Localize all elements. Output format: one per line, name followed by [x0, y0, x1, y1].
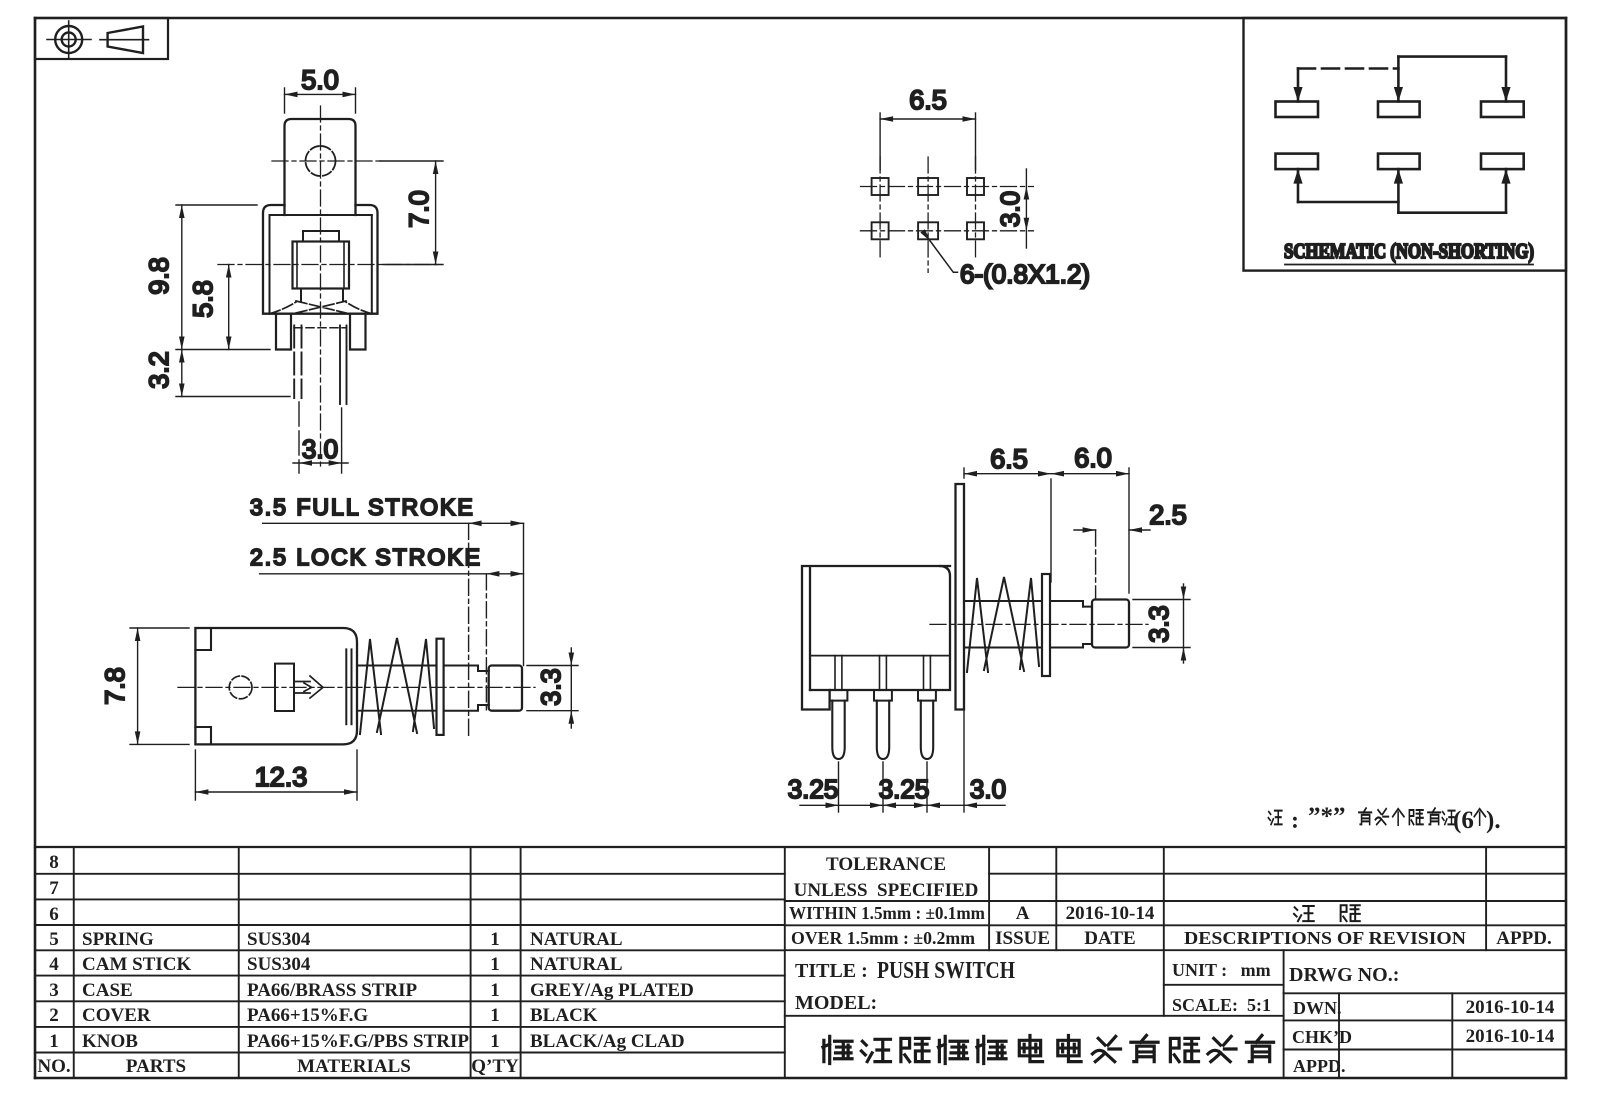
pcb row centerlines — [861, 186, 1034, 188]
view3 terminal roots — [835, 656, 930, 690]
svg-text:PA66/BRASS STRIP: PA66/BRASS STRIP — [247, 980, 418, 1001]
view3 interior base line — [810, 655, 950, 657]
view1 dim 5.8 — [228, 265, 230, 350]
schematic wires bottom — [1298, 169, 1506, 213]
svg-text:6: 6 — [49, 904, 59, 925]
svg-text:3.0: 3.0 — [970, 774, 1006, 804]
svg-text:A: A — [1016, 903, 1030, 924]
view3 terminal stubs — [830, 690, 936, 701]
view2 knob — [489, 666, 522, 711]
svg-text:UNIT : mm: UNIT : mm — [1172, 960, 1271, 980]
view2 centerline — [178, 686, 535, 688]
projection symbol box — [35, 18, 168, 59]
svg-text:7: 7 — [49, 878, 59, 899]
view2 body outline — [195, 628, 357, 744]
svg-text:SUS304: SUS304 — [247, 954, 311, 975]
svg-text:1: 1 — [490, 954, 500, 975]
view2 spring — [360, 638, 434, 734]
view2 cam stick — [275, 664, 294, 711]
svg-text:6.5: 6.5 — [990, 444, 1028, 474]
svg-text:PA66+15%F.G/PBS STRIP: PA66+15%F.G/PBS STRIP — [247, 1031, 469, 1052]
view2 washer — [437, 639, 444, 735]
title block top line — [35, 846, 1566, 848]
view2 stroke phantom lines — [468, 523, 470, 737]
view1 body outline — [263, 205, 378, 314]
svg-text:DATE: DATE — [1084, 928, 1135, 949]
svg-text:Q’TY: Q’TY — [471, 1056, 519, 1077]
svg-text:”*”: ”*” — [1308, 803, 1346, 830]
view1 spring bowtie — [270, 301, 372, 314]
svg-text:1: 1 — [49, 1031, 59, 1052]
pcb hole leader — [929, 240, 957, 272]
view2 bushing flange inner — [345, 649, 347, 724]
view3 shaft — [1050, 601, 1083, 648]
svg-text:(6: (6 — [1453, 807, 1474, 834]
view1 hole centerline — [272, 160, 380, 162]
view1 body centerline — [218, 264, 437, 266]
view3 body right edge and flange joint — [810, 566, 950, 690]
view3 dim 3.3 — [1133, 584, 1190, 663]
view2 dim 7.8 — [130, 628, 189, 744]
view1 plunger — [303, 231, 339, 242]
projection symbol cone — [108, 27, 143, 54]
svg-text:COVER: COVER — [82, 1005, 151, 1026]
view3 centerline — [930, 623, 1148, 625]
pcb hole pads — [872, 178, 984, 239]
view2 dim 12.3 — [195, 750, 357, 800]
view3 bushing flange — [956, 484, 965, 710]
view3 dim 6.5 / 6.0 — [964, 468, 1129, 593]
view3 bottom dims 3.25 3.25 3.0 — [800, 710, 1005, 813]
svg-text:8: 8 — [49, 852, 59, 873]
svg-text:2016-10-14: 2016-10-14 — [1066, 903, 1155, 924]
svg-text:2016-10-14: 2016-10-14 — [1466, 997, 1555, 1018]
svg-text:PARTS: PARTS — [126, 1056, 186, 1077]
pcb column centerlines — [879, 157, 881, 257]
svg-text:3.25: 3.25 — [879, 774, 930, 804]
projection symbol circles — [55, 26, 82, 53]
view2 dim 3.3 — [527, 648, 578, 728]
view1 mounting tabs — [276, 314, 291, 350]
svg-text:2.5: 2.5 — [1149, 500, 1187, 530]
pcb dim 6.5 — [880, 113, 975, 170]
svg-text:MATERIALS: MATERIALS — [297, 1056, 411, 1077]
svg-text:CHK’D: CHK’D — [1292, 1027, 1352, 1047]
svg-text:DWN.: DWN. — [1293, 998, 1342, 1018]
view1 body inner top — [270, 214, 372, 216]
svg-text:6.5: 6.5 — [909, 85, 947, 115]
svg-text:9.8: 9.8 — [144, 257, 174, 295]
svg-text:3.3: 3.3 — [1144, 605, 1174, 643]
svg-text:5.0: 5.0 — [301, 65, 339, 95]
view2 collar — [478, 671, 489, 705]
svg-text:2.5 LOCK STROKE: 2.5 LOCK STROKE — [250, 544, 482, 570]
svg-text:SCALE: 5:1: SCALE: 5:1 — [1172, 995, 1271, 1015]
svg-text:2016-10-14: 2016-10-14 — [1466, 1026, 1555, 1047]
svg-text:3.25: 3.25 — [788, 774, 839, 804]
view3 knob — [1092, 600, 1129, 648]
svg-text:NATURAL: NATURAL — [530, 929, 623, 950]
svg-text:12.3: 12.3 — [255, 762, 308, 792]
view2 shaft behind spring — [357, 665, 437, 667]
svg-text:1: 1 — [490, 1005, 500, 1026]
svg-text:3.5 FULL STROKE: 3.5 FULL STROKE — [250, 494, 475, 520]
svg-text:CAM STICK: CAM STICK — [82, 954, 191, 975]
svg-text:DRWG NO.:: DRWG NO.: — [1289, 964, 1399, 986]
view1 terminals — [293, 326, 295, 399]
svg-text:3: 3 — [49, 980, 59, 1001]
view1 knob hole — [306, 146, 336, 176]
view2 cam follower circle — [229, 676, 252, 699]
svg-text:).: ). — [1486, 807, 1501, 834]
schematic contact arrows — [1293, 87, 1510, 184]
view3 spring — [967, 577, 1039, 672]
svg-text:KNOB: KNOB — [82, 1031, 138, 1052]
view3 lock position phantom — [1095, 530, 1097, 598]
svg-text:PUSH SWITCH: PUSH SWITCH — [877, 958, 1015, 984]
svg-text:TITLE :: TITLE : — [795, 960, 868, 982]
svg-text:3.2: 3.2 — [144, 351, 174, 389]
view3 collar — [1083, 607, 1092, 644]
svg-text:2: 2 — [49, 1005, 59, 1026]
svg-text:MODEL:: MODEL: — [795, 992, 877, 1014]
view3 dim 2.5 — [1074, 529, 1150, 531]
view1 vertical centerline — [320, 106, 322, 470]
view3 shaft behind spring — [964, 600, 1042, 602]
svg-text:6.0: 6.0 — [1074, 443, 1112, 473]
svg-text:WITHIN 1.5mm : ±0.1mm: WITHIN 1.5mm : ±0.1mm — [789, 903, 985, 923]
view1 dim 5.0 — [285, 88, 356, 113]
svg-text:3.0: 3.0 — [995, 191, 1025, 227]
svg-text:BLACK/Ag CLAD: BLACK/Ag CLAD — [530, 1031, 685, 1052]
svg-text:PA66+15%F.G: PA66+15%F.G — [247, 1005, 368, 1026]
svg-text:UNLESS SPECIFIED: UNLESS SPECIFIED — [794, 880, 979, 901]
svg-text:APPD.: APPD. — [1293, 1056, 1346, 1076]
svg-text:NO.: NO. — [37, 1056, 70, 1077]
svg-text:4: 4 — [49, 954, 59, 975]
svg-text:SPRING: SPRING — [82, 929, 154, 950]
svg-text:GREY/Ag PLATED: GREY/Ag PLATED — [530, 980, 694, 1001]
view3 cover side plate — [802, 566, 950, 710]
svg-text:ISSUE: ISSUE — [995, 928, 1050, 949]
view3 terminal pins — [832, 701, 933, 759]
pcb dim 3.0 — [1025, 169, 1027, 248]
svg-text:BLACK: BLACK — [530, 1005, 598, 1026]
svg-text:1: 1 — [490, 929, 500, 950]
view2 shaft — [444, 666, 478, 711]
svg-text:7.8: 7.8 — [100, 667, 130, 705]
svg-text:5.8: 5.8 — [188, 280, 218, 318]
view1 dim 3.2 — [176, 350, 290, 397]
svg-text:6-(0.8X1.2): 6-(0.8X1.2) — [960, 259, 1090, 289]
svg-text:1: 1 — [490, 980, 500, 1001]
svg-text:7.0: 7.0 — [404, 190, 434, 228]
svg-text:OVER 1.5mm : ±0.2mm: OVER 1.5mm : ±0.2mm — [791, 928, 975, 948]
schematic box border — [1244, 18, 1567, 271]
view1 dim 3.0 — [293, 402, 348, 473]
svg-text:5: 5 — [49, 929, 59, 950]
view1 body inner walls — [269, 215, 271, 314]
schematic wires top — [1298, 57, 1506, 102]
view1 knob tab — [285, 119, 356, 215]
svg-text::: : — [1291, 808, 1299, 834]
svg-text:3.3: 3.3 — [536, 668, 566, 706]
svg-text:1: 1 — [490, 1031, 500, 1052]
schematic terminals top row — [1276, 102, 1524, 170]
view3 washer — [1042, 574, 1050, 676]
svg-text:3.0: 3.0 — [302, 434, 338, 464]
svg-text:DESCRIPTIONS OF REVISION: DESCRIPTIONS OF REVISION — [1184, 928, 1466, 948]
view1 dim 9.8 — [176, 205, 270, 350]
svg-text:NATURAL: NATURAL — [530, 954, 623, 975]
svg-text:APPD.: APPD. — [1496, 928, 1551, 949]
view1 dim 7.0 — [380, 161, 443, 265]
svg-text:SCHEMATIC (NON-SHORTING): SCHEMATIC (NON-SHORTING) — [1284, 239, 1534, 263]
svg-text:CASE: CASE — [82, 980, 133, 1001]
svg-text:SUS304: SUS304 — [247, 929, 311, 950]
svg-text:TOLERANCE: TOLERANCE — [826, 854, 946, 875]
